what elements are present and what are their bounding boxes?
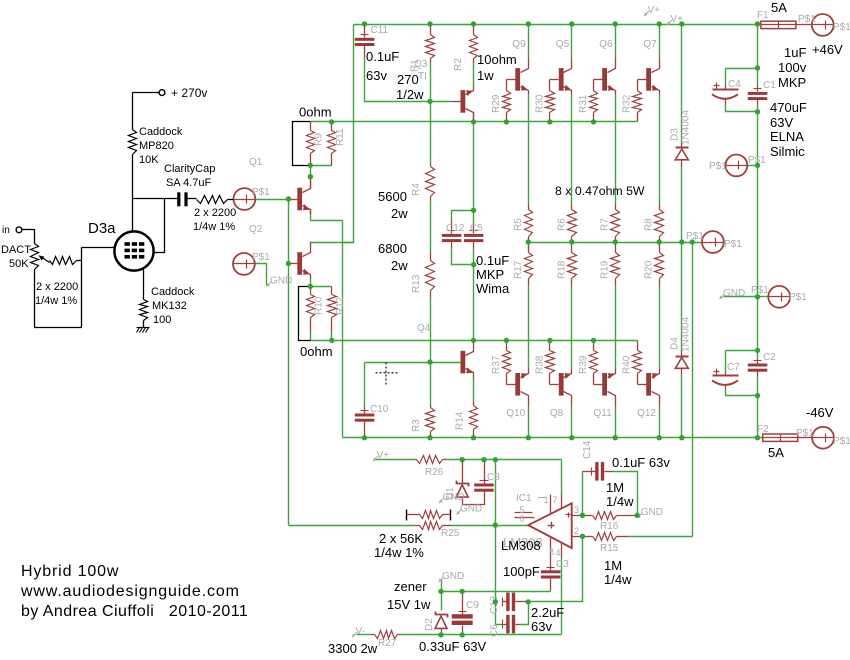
wire C2 leads [757,351,759,360]
svg-text:P$1: P$1 [798,14,816,25]
svg-text:1w: 1w [477,68,494,83]
ground GND opamp 1 [439,498,444,503]
op-amp IC1 LM308 [528,503,572,548]
svg-text:R29: R29 [491,94,502,113]
wire upper emitters to R5-R8 [528,95,530,205]
wire R10 R12 bottoms [310,333,312,341]
wire GND tap [724,296,758,298]
svg-text:C12: C12 [446,223,465,234]
resistor R37 [506,341,508,351]
svg-text:Q11: Q11 [594,408,613,419]
svg-text:GND: GND [723,288,745,299]
wire V- row [357,634,372,636]
svg-text:C11: C11 [371,25,389,36]
svg-text:1/4w 1%: 1/4w 1% [374,545,424,560]
junction dots lower driver rail [329,338,334,343]
resistor R4 [430,164,432,167]
svg-text:3300 2w: 3300 2w [328,641,378,656]
svg-text:GND: GND [460,504,482,515]
svg-text:GND: GND [443,492,465,503]
wire +46V column [757,25,759,69]
svg-text:R8: R8 [644,218,655,231]
svg-text:R4: R4 [411,183,422,196]
svg-text:P$1: P$1 [709,161,727,172]
junction dot C12 C5 bottom [471,262,476,267]
wire Q2 collector to output node [311,242,354,244]
wire Q1 emitter line [311,220,343,222]
transistor Q3 [461,90,466,113]
svg-text:1/4w: 1/4w [604,572,632,587]
wire P$1 input to Q1/Q2 bases [256,199,289,201]
svg-text:P$1: P$1 [833,22,850,33]
svg-text:C14: C14 [582,440,593,459]
junction dots upper driver rail [329,119,334,124]
svg-text:P$1: P$1 [724,239,742,250]
svg-text:F2: F2 [757,424,769,435]
svg-text:1N4004: 1N4004 [681,317,692,352]
resistor R18 [571,243,573,253]
svg-text:V+: V+ [648,5,661,16]
svg-text:R15: R15 [600,543,619,554]
svg-text:R14: R14 [455,411,466,430]
junction dot Q4 base node [427,359,432,364]
svg-text:P$1: P$1 [833,436,850,447]
resistor R25 2x56K [406,510,408,521]
svg-text:6: 6 [520,514,525,524]
wire C5 bottom to Q4 collector node [473,249,475,265]
wire R9 R11 bottoms [311,165,332,167]
connector P$1 gnd right [768,286,790,308]
wire Q4 emitter to R14 [473,378,475,402]
svg-text:P$1: P$1 [252,187,270,198]
svg-text:1/4w 1%: 1/4w 1% [193,221,235,233]
transistor Q10 [515,373,520,396]
svg-text:R19: R19 [600,260,611,279]
svg-text:1/2w: 1/2w [396,87,424,102]
connector P$1 speaker out [702,231,724,253]
svg-text:0.1uF 63v: 0.1uF 63v [612,455,670,470]
svg-text:C10: C10 [370,404,389,415]
svg-text:100: 100 [153,314,171,326]
svg-text:2 x 56K: 2 x 56K [379,531,423,546]
resistor R8 [659,205,661,210]
transistor Q11 [602,373,607,396]
resistor R12 [331,287,333,295]
wire R10 R12 tops [311,286,332,288]
svg-text:R39: R39 [578,355,589,374]
svg-text:7: 7 [553,495,558,505]
svg-text:P$1: P$1 [751,285,769,296]
wire C14 net [582,472,584,516]
junction dot R10 top [308,284,313,289]
svg-text:R13: R13 [411,274,422,293]
svg-text:R30: R30 [534,94,545,113]
svg-text:Q2: Q2 [249,224,263,235]
capacitor C7 470uF [725,373,727,376]
resistor R14 [473,402,475,406]
resistor 2x2200 series [197,196,228,204]
svg-text:+ 270v: + 270v [171,86,207,100]
svg-text:R40: R40 [622,355,633,374]
capacitor C9 0.33uF [462,592,464,615]
capacitor C10 [355,414,375,417]
resistor R7 [615,205,617,210]
svg-text:5A: 5A [771,0,787,15]
transistor Q8 [559,373,564,396]
svg-text:100v: 100v [778,60,807,75]
wire V+ to R26 [375,459,415,461]
svg-text:R31: R31 [578,94,589,113]
resistor R13 [430,253,432,261]
connector P$1 -46V [812,427,834,449]
ground GND right [720,294,725,299]
ground GND at R16 [637,513,642,518]
capacitor C1 1uF MKP [757,86,759,92]
resistor R2 [473,25,475,35]
svg-text:D3a: D3a [88,220,116,237]
wire pot bottom to gnd bus [35,248,82,328]
svg-text:2 x 2200: 2 x 2200 [36,281,78,293]
resistor R26 [415,459,417,461]
0ohm jumper box upper [293,122,311,166]
junction dot Q2 base [286,261,291,266]
svg-text:IC1: IC1 [516,493,532,504]
svg-text:3: 3 [574,505,579,515]
svg-text:Q8: Q8 [550,408,564,419]
svg-text:0ohm: 0ohm [300,344,333,359]
wire R25 to op-amp output [451,525,529,527]
svg-text:C1: C1 [763,80,776,91]
wire R2 to Q3 emitter [473,63,475,87]
wire D3 column [681,25,683,143]
resistor R32 [637,80,639,91]
wire grid line [82,247,115,249]
wire P$1 tap at +46V column [748,165,758,167]
svg-text:Q10: Q10 [506,408,525,419]
svg-text:C13: C13 [489,595,500,614]
svg-text:V+: V+ [377,450,390,461]
svg-text:LM308: LM308 [501,538,541,553]
svg-text:MK132: MK132 [152,300,187,312]
svg-text:C9: C9 [466,600,479,611]
0ohm jumper box lower [299,287,311,341]
connector P$1 +46V [812,14,834,36]
fuse F2 5A [763,434,798,441]
svg-text:GND: GND [641,507,663,518]
terminal +270v [159,90,165,96]
svg-text:by Andrea Ciuffoli 2010-2011: by Andrea Ciuffoli 2010-2011 [21,603,248,620]
svg-text:Q3: Q3 [414,59,428,70]
wire inverting input net [529,537,583,602]
svg-text:MKP: MKP [476,267,504,282]
svg-text:63V: 63V [770,115,793,130]
wire GND row near zener [441,580,443,592]
potentiometer DACT 50K [31,244,39,270]
ground GND at input connector [267,282,272,287]
wire D4 column [681,243,683,351]
wire feedback from speaker node [692,243,694,537]
svg-text:8 x 0.47ohm 5W: 8 x 0.47ohm 5W [555,184,645,198]
wire R17-R20 to lower emitters [528,286,530,369]
wire lower driver rail [311,340,638,342]
svg-text:R25: R25 [441,528,460,539]
transistor Q4 [461,351,466,374]
svg-text:TI: TI [418,71,427,82]
ground symbol tube cathode [137,327,150,329]
resistor R15 1M [583,536,593,538]
wire R4-R13 column [430,200,432,253]
svg-text:Q7: Q7 [643,39,657,50]
junction dots C13 row [493,599,498,604]
transistor Q2 [297,252,302,275]
resistor R40 [637,341,639,351]
resistor R16 1M [583,515,593,517]
svg-text:ClarityCap: ClarityCap [164,163,215,175]
junction dots V- row [438,632,443,637]
connector P$1 input lower [233,253,255,275]
svg-text:2 x 2200: 2 x 2200 [194,207,236,219]
svg-text:5A: 5A [768,445,784,460]
svg-text:C6: C6 [489,624,500,637]
zener diode D1 [462,460,464,484]
resistor R29 [506,80,508,91]
svg-text:470uF: 470uF [770,100,807,115]
svg-text:0ohm: 0ohm [299,105,332,120]
supply arrow V+ opamp [373,456,378,461]
svg-text:R18: R18 [556,260,567,279]
supply arrow V+ top 1 [644,11,649,16]
svg-text:1uF: 1uF [784,45,806,60]
resistor 2x2200 wiper [50,257,77,265]
svg-text:R7: R7 [600,218,611,231]
junction dots gnd row [438,589,443,594]
resistor R20 [659,243,661,253]
svg-text:R3: R3 [411,419,422,432]
wire V+ top rail [354,24,758,26]
connector P$1 input upper [234,188,256,210]
resistor Caddock MP820 10K [129,130,137,155]
svg-text:D2: D2 [424,618,435,631]
svg-text:DACT: DACT [1,244,31,256]
connector P$1 mid right [726,155,748,177]
svg-text:1/4w: 1/4w [606,494,634,509]
svg-text:R27: R27 [378,638,397,649]
input terminal in [16,227,22,233]
svg-text:6800: 6800 [378,241,407,256]
wire R1-R4 column [430,63,432,164]
svg-text:R9: R9 [314,133,325,146]
svg-text:1N4004: 1N4004 [681,110,692,145]
svg-text:10K: 10K [139,154,159,166]
svg-text:8: 8 [549,547,554,557]
svg-text:R17: R17 [513,260,524,279]
capacitor C13 2.2uF [503,601,507,603]
svg-text:Q9: Q9 [512,39,526,50]
resistor R10 [310,287,312,295]
svg-text:Q1: Q1 [249,157,263,168]
wire R26 to op-amp V+ pin [447,459,562,461]
wire Q3 node down to C5 [473,122,475,211]
svg-text:0.1uF: 0.1uF [476,253,509,268]
supply arrow V+ top 2 [667,20,672,25]
svg-text:F1: F1 [757,10,769,21]
resistor R30 [549,80,551,91]
svg-text:R38: R38 [534,355,545,374]
transistor Q7 [646,68,651,91]
resistor R38 [549,341,551,351]
capacitor ClarityCap SA 4.7uF [177,192,180,206]
wire left bus down to bottom rail [342,221,344,438]
zener diode D2 15V [436,612,448,618]
resistor R5 [528,205,530,210]
capacitor C3 100pF [541,570,561,573]
resistor R1 [430,25,432,35]
svg-text:Hybrid 100w: Hybrid 100w [21,563,119,580]
wire C11 bottom to Q3 base [365,58,452,102]
wire upper output collectors [528,25,530,58]
junction dots output rail [526,239,531,244]
svg-text:P$1: P$1 [796,428,814,439]
wire V- to op-amp pin4 [561,558,563,635]
svg-text:C2: C2 [763,352,776,363]
svg-text:zener: zener [394,579,427,594]
svg-text:C4: C4 [728,79,741,90]
junction dots op-amp inputs [580,513,585,518]
svg-text:C7: C7 [727,362,740,373]
svg-text:D3: D3 [670,128,681,141]
junction dot C12 C5 top [471,208,476,213]
svg-text:D4: D4 [670,337,681,350]
svg-text:Wima: Wima [476,281,510,296]
wire R13 to Q4 base node [430,298,432,405]
svg-text:2w: 2w [391,258,408,273]
wire cathode [143,270,145,300]
resistor R6 [571,205,573,210]
wire C5 top lead [473,211,475,226]
capacitor C14 0.1uF [583,471,596,473]
wire op-amp aux vertical [495,460,497,625]
svg-text:63v: 63v [531,619,552,634]
svg-text:www.audiodesignguide.com: www.audiodesignguide.com [20,583,240,600]
transistor Q5 [559,68,564,91]
tube D3a [114,231,153,270]
svg-text:Q4: Q4 [417,323,431,334]
svg-text:50K: 50K [9,258,29,270]
svg-text:1M: 1M [604,558,622,573]
svg-text:in: in [2,225,10,236]
capacitor C8 [484,460,486,484]
junction dots top rail [362,21,367,26]
svg-text:63v: 63v [366,68,387,83]
svg-text:270: 270 [397,72,419,87]
cursor crosshair [376,372,399,374]
svg-text:Caddock: Caddock [151,286,195,298]
wire C7 branch [726,350,758,352]
svg-text:V-: V- [356,626,365,637]
capacitor C12 [451,222,453,234]
wire P$1 lower to GND [255,264,267,286]
junction dots bottom rail [362,435,367,440]
svg-text:GND: GND [270,276,292,287]
resistor R39 [593,341,595,351]
svg-text:R37: R37 [491,355,502,374]
wire left vertical from top rail [343,25,354,243]
junction dot input node [286,196,291,201]
svg-text:R11: R11 [335,128,346,146]
wire output rail to speaker [528,242,702,244]
capacitor C11 [364,25,366,38]
svg-text:GND: GND [442,571,464,582]
svg-text:4: 4 [556,548,561,558]
svg-text:5600: 5600 [378,189,407,204]
resistor R19 [615,243,617,253]
svg-text:1: 1 [544,495,549,505]
svg-text:P$1: P$1 [789,292,807,303]
resistor Caddock MK132 100 [140,300,148,321]
svg-text:C5: C5 [470,223,483,234]
svg-text:C3: C3 [556,559,569,570]
svg-text:R26: R26 [425,467,444,478]
junction dots R9 R11 bottoms [308,163,313,168]
svg-text:R16: R16 [600,521,619,532]
junction dot op-amp output [493,522,498,527]
svg-text:R5: R5 [513,218,524,231]
capacitor C5 [473,226,475,234]
ground GND opamp 2 [457,510,462,515]
svg-text:Q12: Q12 [637,408,656,419]
svg-text:Silmic: Silmic [770,144,805,159]
wire upper driver rail [311,121,638,123]
junction dots R26 row [460,457,465,462]
wire anode column +270v [132,93,134,130]
svg-text:100pF: 100pF [503,564,540,579]
svg-text:Caddock: Caddock [139,126,183,138]
svg-text:2.2uF: 2.2uF [531,605,564,620]
wire V- bottom rail [343,437,763,439]
supply arrow V- [352,632,357,637]
svg-text:R6: R6 [556,218,567,231]
transistor Q1 [310,177,312,189]
svg-text:10ohm: 10ohm [477,52,517,67]
junction dots +46V column [755,65,760,70]
svg-text:15V 1w: 15V 1w [387,597,431,612]
capacitor C6 2.2uF [503,624,507,626]
resistor R11 [331,122,333,131]
diode D3 1N4004 [681,143,683,149]
resistor R31 [593,80,595,91]
svg-text:ELNA: ELNA [770,129,804,144]
wire anode top line [133,198,178,200]
svg-text:1M: 1M [606,480,624,495]
capacitor C2 1uF [757,360,759,364]
resistor R3 [430,405,432,408]
transistor Q12 [646,373,651,396]
transistor Q6 [602,68,607,91]
fuse F1 5A [761,21,796,28]
svg-text:Q6: Q6 [599,39,613,50]
svg-text:0.33uF 63V: 0.33uF 63V [419,639,487,654]
svg-text:2w: 2w [391,206,408,221]
resistor R27 3300 [372,634,375,636]
svg-text:R32: R32 [622,94,633,113]
ground GND at zener [439,577,444,582]
diode D4 1N4004 [681,351,683,357]
wire C12 bottom branch [452,248,474,265]
resistor R9 [310,122,312,131]
svg-text:C8: C8 [487,472,500,483]
svg-text:R2: R2 [453,58,464,71]
resistor R17 [528,243,530,253]
